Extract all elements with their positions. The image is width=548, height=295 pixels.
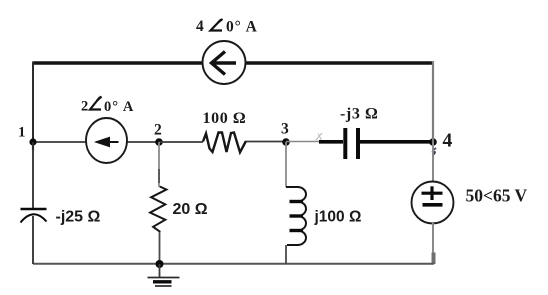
node 1 junction dot [29,138,36,145]
voltage source V1 (50<65 V) circle with plus minus [412,182,454,224]
svg-text:-j25 Ω: -j25 Ω [56,209,101,226]
svg-text:0° A: 0° A [104,99,134,115]
wire: node 2 down to resistor R2 [158,142,160,187]
wire: resistor R1 to node 3 [246,141,286,143]
wire: node 4 down to voltage source V1 [432,142,434,182]
artifact mark below node 1 [32,145,34,150]
wire: ground stub [159,264,161,278]
ground symbol [148,278,180,287]
inductor L1 j100 Ω coil [286,187,306,245]
wire: top bus right segment (current source I2 to node4 top corner) [245,61,434,65]
wire: capacitor C1 down to bottom bus [32,216,34,264]
ground junction dot on bottom bus [156,260,164,268]
node 2 junction dot [155,138,163,146]
wire: node 2 to resistor R1 [159,141,203,143]
annotation squiggle below node 4 [433,148,436,155]
svg-text:20 Ω: 20 Ω [173,201,208,218]
svg-text:4: 4 [196,18,204,35]
resistor R1 100 Ω zigzag [203,133,246,153]
wire: thick lead into capacitor C2 [319,140,343,144]
svg-text:1: 1 [18,125,26,141]
darker patch on wire above resistor R2 [158,169,160,183]
svg-text:2: 2 [81,99,88,115]
capacitor C2 -j3 Ω plates [345,128,358,159]
wire: current source I1 to node 2 [127,141,159,143]
value label: 2∠0° A [81,97,134,116]
node 4 junction dot [429,138,437,146]
svg-text:2: 2 [154,122,162,139]
svg-text:4: 4 [443,131,453,152]
wire: bottom-right corner cap [432,253,436,265]
current source I1 (2&#8736;0&#176; A) circle with left filled arrow [86,118,127,163]
current source I2 (4&#8736;0&#176; A) top circle with left arrow [203,41,246,84]
svg-text:3: 3 [281,121,289,138]
wire: bottom bus (left corner to right corner) [33,263,434,265]
value label: 4∠0° A [196,18,258,36]
faint scratch artifact above thick lead joint [316,133,322,140]
wire: node1 to current source I1 [33,141,87,143]
wire: node 3 down to inductor L1 [285,142,287,187]
capacitor C1 -j25 Ω plates [21,209,47,223]
svg-text:j100 Ω: j100 Ω [314,209,362,226]
wire: right vertical top (top-right corner to node 4) [432,62,434,143]
resistor R2 20 Ω vertical zigzag [150,187,166,232]
svg-text:100 Ω: 100 Ω [203,110,247,127]
wire: node 1 down to capacitor C1 [32,142,34,209]
wire: inductor L1 down to bottom bus [285,245,287,264]
node 3 junction dot [282,138,290,146]
wire: voltage source V1 down to bottom bus [432,223,434,264]
wire: top bus left segment (node1 top corner to current source I2) [33,61,203,65]
wire: left vertical (top-left corner down to node 1) [32,62,34,143]
svg-text:50<65 V: 50<65 V [466,186,528,206]
wire: thick lead capacitor C2 to node 4 [360,140,431,144]
wire: resistor R2 down to bottom bus node [159,232,161,264]
wire: node 3 toward capacitor C2 (thin gray) [286,141,319,143]
svg-text:0° A: 0° A [226,19,258,36]
svg-text:-j3 Ω: -j3 Ω [340,106,378,123]
